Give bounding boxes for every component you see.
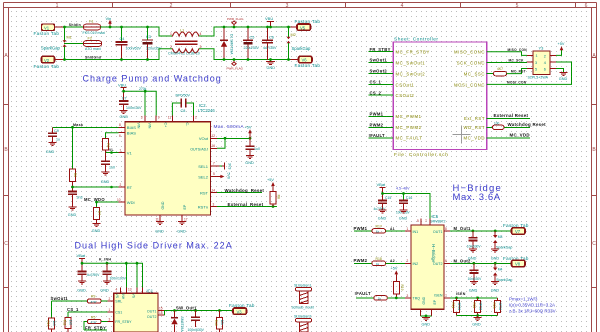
op-amp U IC1 driver [114,287,158,332]
svg-text:External_Reset: External_Reset [228,202,264,207]
connector Y3 ISP [527,46,556,80]
wire OUT1 bridge [444,226,512,232]
svg-text:+5V: +5V [558,42,565,46]
wire choke out top [200,27,225,36]
svg-text:MC_SwOut1: MC_SwOut1 [396,60,426,65]
svg-text:5: 5 [516,3,519,9]
SEC4 [354,182,556,326]
capacitor C4 [117,26,142,61]
ground bottom bus [267,58,276,70]
svg-text:4K7: 4K7 [497,67,503,71]
resistor R9 [88,295,114,304]
svg-text:VBU: VBU [118,83,126,88]
svg-text:MC_VDD: MC_VDD [510,132,530,137]
svg-text:V8: V8 [515,262,521,267]
svg-text:BIAS: BIAS [127,131,136,136]
resistor R6 [70,127,78,187]
svg-text:GND: GND [469,289,478,293]
svg-text:1u: 1u [56,138,60,142]
ground pin EP IC2 [177,215,187,234]
svg-text:100n/63V: 100n/63V [126,46,142,50]
svg-text:Max. 500mA: Max. 500mA [214,124,245,130]
svg-text:5: 5 [417,219,419,223]
capacitor C10 [101,153,115,173]
sheet pin MC_SSC [464,71,494,76]
pin OUTS/ADJ 16 [211,138,226,148]
svg-text:D1 SM6T39A: D1 SM6T39A [230,34,234,55]
text Pmax annotation [509,296,556,313]
svg-text:2: 2 [544,54,546,58]
svg-text:47R: 47R [91,320,97,324]
svg-text:5: 5 [213,172,215,176]
svg-text:BIAS: BIAS [127,125,136,130]
svg-text:Watchdog_Reset: Watchdog_Reset [225,188,265,193]
resistor R23 [492,298,502,316]
svg-text:4: 4 [544,61,546,65]
svg-text:OUT2: OUT2 [433,262,443,266]
svg-text:7: 7 [425,219,427,223]
capacitor C7 [119,97,142,111]
svg-text:C7: C7 [122,97,127,101]
sheet pin CS_2 [369,90,415,98]
spark gap M2 [287,26,311,61]
fuse F2 [84,36,102,51]
wire vertical V1-V2 [64,27,66,60]
label FAULT bridge [355,291,374,298]
ground C18 [469,282,478,293]
svg-text:PWR_FLAG: PWR_FLAG [227,66,244,70]
svg-text:OUT1: OUT1 [147,309,157,313]
svg-text:RST: RST [200,190,209,195]
svg-text:GND: GND [472,322,481,326]
svg-text:GND: GND [422,322,431,326]
svg-text:GND: GND [399,217,408,221]
wire OUT1 net driver [158,306,233,316]
svg-text:SW_Out1: SW_Out1 [176,306,197,311]
svg-text:PWR_FLAG: PWR_FLAG [227,17,244,21]
svg-text:LTC3246: LTC3246 [198,108,216,113]
resistor R22 [472,298,482,316]
sheet Controller [393,36,487,157]
resistor R18 [372,257,411,266]
svg-text:11: 11 [156,217,160,221]
capacitor C8 flying [168,94,197,122]
svg-text:4: 4 [401,3,404,9]
svg-text:C15: C15 [385,196,391,200]
capacitor C18 [468,263,483,281]
label PWM1 [354,226,373,231]
svg-text:SparkGap: SparkGap [292,46,312,51]
svg-text:MC_PWM1: MC_PWM1 [396,114,422,119]
svg-text:12: 12 [212,134,216,138]
svg-text:5V0: 5V0 [227,173,231,179]
svg-text:Max. 3.6A: Max. 3.6A [453,192,501,203]
pin V1 [106,148,126,154]
pin VOut 12 [211,134,252,140]
capacitor C17 [467,231,482,249]
svg-text:IC2: IC2 [199,103,206,108]
ground C10 [101,172,110,184]
svg-text:A2: A2 [390,259,395,263]
sheet pin MISO_CONC [454,48,527,56]
svg-text:+5V: +5V [391,267,398,271]
svg-text:CMS04-L2 L01B-L0: CMS04-L2 L01B-L0 [168,51,200,55]
svg-text:Vin: Vin [106,16,112,21]
power +5V ISP [556,42,565,55]
svg-text:EP: EP [183,204,187,209]
svg-text:100: 100 [494,122,500,126]
svg-text:C+: C+ [164,123,168,128]
capacitor C19 [188,311,205,332]
svg-text:SCK_CONC: SCK_CONC [457,60,485,65]
cursor crosshair [453,126,471,144]
svg-text:ISEN: ISEN [434,293,443,297]
svg-text:PWM2: PWM2 [354,258,368,263]
svg-text:V1: V1 [127,150,133,155]
capacitor C9 [48,127,60,142]
ground IC5 [421,309,432,326]
sheet pin PWM2 [369,122,422,130]
svg-text:Faston Tab: Faston Tab [295,63,321,68]
capacitor C16 [396,196,412,214]
svg-text:C6: C6 [269,36,274,40]
capacitor C5 polarized [244,26,260,61]
svg-text:1: 1 [170,32,172,36]
svg-text:Schraub_mount: Schraub_mount [292,306,315,310]
svg-text:Watchdog Reset: Watchdog Reset [508,122,547,127]
connector V6 Faston Tab [291,56,320,67]
svg-text:2: 2 [120,183,122,187]
svg-text:VOut: VOut [199,136,209,141]
svg-text:1k: 1k [376,230,380,234]
svg-text:6: 6 [585,3,588,9]
svg-text:GND: GND [378,217,387,221]
svg-text:External Reset: External Reset [494,113,529,118]
svg-text:16: 16 [212,144,216,148]
ground C9 [46,143,57,154]
svg-text:18: 18 [159,311,163,315]
svg-text:1: 1 [407,227,409,231]
capacitor C6 [263,26,277,60]
pin RST 14 [211,188,265,193]
svg-text:R8: R8 [277,195,281,199]
svg-text:+5V: +5V [267,178,274,182]
resistor R8 pullup [267,178,281,207]
svg-text:10n/630V: 10n/630V [467,244,482,248]
wire F2 stub [65,43,84,45]
svg-text:H−Bridge: H−Bridge [431,244,436,263]
svg-text:CS1: CS1 [115,311,122,315]
svg-text:NP0/50V: NP0/50V [176,94,191,98]
svg-text:IC1: IC1 [147,288,154,293]
svg-text:SM6T39A: SM6T39A [180,317,184,332]
svg-text:CS_1: CS_1 [67,307,79,312]
svg-text:1: 1 [536,54,538,58]
svg-text:100n/100V: 100n/100V [110,276,127,280]
svg-text:V2: V2 [44,58,50,63]
svg-text:C5: C5 [250,36,255,40]
svg-text:GND: GND [101,180,110,184]
svg-text:F1: F1 [89,20,93,24]
svg-text:I(o)=0.35V/0.11R=3.2A: I(o)=0.35V/0.11R=3.2A [509,302,555,307]
wire top bus right [224,26,297,28]
svg-text:0R33: 0R33 [457,303,461,311]
svg-text:ATO maxi: ATO maxi [85,47,101,51]
svg-text:R17: R17 [376,225,382,229]
svg-text:MC_RST: MC_RST [511,70,526,74]
power flag top [227,17,244,28]
svg-text:MC_SCK: MC_SCK [509,59,525,63]
ground shunt [472,318,482,327]
connector V7 Faston Tab [503,223,529,234]
wire into choke top [159,27,172,36]
wire MOSI loop [454,62,571,87]
diode D2 TVS [171,311,184,332]
svg-text:10: 10 [117,198,121,202]
svg-text:10k: 10k [220,320,224,326]
svg-text:CSOut1: CSOut1 [396,82,415,87]
connector V8 Faston Tab [503,256,529,267]
ground C16 [399,210,408,221]
svg-text:MISO_CONC: MISO_CONC [454,49,485,54]
svg-text:R23: R23 [492,303,496,309]
svg-text:MC_VDD: MC_VDD [464,136,485,141]
svg-text:3: 3 [213,202,215,206]
svg-text:VL: VL [109,148,114,152]
svg-text:OUTS/ADJ: OUTS/ADJ [190,147,208,151]
wire VBU to VIN pins [124,91,157,115]
ground C17 [468,249,477,260]
svg-text:3n3: 3n3 [77,196,83,200]
svg-text:M3: M3 [498,235,503,239]
svg-text:5: 5 [535,68,537,72]
ground pin GND IC2 [155,215,164,234]
svg-text:100n/630V: 100n/630V [188,328,205,332]
svg-text:GND: GND [559,77,568,81]
svg-text:R18: R18 [376,257,382,261]
svg-text:MC_PWM2: MC_PWM2 [396,125,422,130]
SEC1 [46,73,281,233]
svg-text:FR_STBY: FR_STBY [370,47,391,52]
svg-text:Dual High Side Driver Max. 22A: Dual High Side Driver Max. 22A [75,240,233,250]
pin WDI 10 [84,197,125,204]
svg-text:C16: C16 [406,196,412,200]
capacitor C12 [246,138,261,155]
svg-text:GND: GND [120,115,129,119]
capacitor C11 [68,186,83,207]
svg-text:VIN: VIN [137,123,141,129]
resistor R12 [84,315,114,330]
sheet pin Ext_RST [464,113,530,121]
svg-text:GND: GND [491,256,500,260]
svg-text:3: 3 [535,61,537,65]
power Vin [106,16,112,29]
svg-text:GND: GND [77,289,86,293]
svg-text:A1: A1 [390,227,395,231]
sheet pin FR_STBY [369,47,430,55]
svg-text:MC_FAULT: MC_FAULT [396,136,423,141]
sheet pin CS_1 [369,80,415,88]
svg-text:2: 2 [407,259,409,263]
svg-text:1k0: 1k0 [52,321,56,326]
svg-text:R11: R11 [62,320,66,326]
ground R7 [92,224,101,233]
svg-text:OUT1: OUT1 [433,230,443,234]
resistor R21 [451,298,461,316]
svg-text:V3: V3 [237,309,243,314]
ground C7 [120,111,129,120]
svg-text:0R33: 0R33 [498,303,502,311]
svg-text:2: 2 [170,45,172,49]
svg-text:CS_1: CS_1 [370,80,382,85]
svg-text:MISO_CON: MISO_CON [508,48,528,52]
connector V1 Faston Tab [34,24,65,36]
svg-text:17: 17 [184,217,188,221]
wire BIAS net [53,127,119,138]
svg-text:VIN: VIN [148,123,152,129]
resistor R10 [46,301,56,332]
svg-text:3: 3 [109,317,111,321]
svg-text:GND: GND [161,201,165,209]
svg-text:SwOut2: SwOut2 [370,69,388,74]
svg-text:3: 3 [141,115,143,119]
pin SEL2 5 [211,172,231,179]
sheet pin FAULT [369,133,423,141]
svg-text:FR_STBY: FR_STBY [115,320,132,324]
svg-text:IN2: IN2 [413,262,419,266]
svg-text:220u/35V: 220u/35V [244,46,260,50]
svg-text:4: 4 [200,32,202,36]
svg-text:R22: R22 [472,303,476,309]
wire to F1 [65,26,84,28]
ground C13 [77,281,86,293]
svg-text:VBU: VBU [265,16,273,21]
pin BIAS 8 [119,123,126,127]
svg-text:V5: V5 [300,25,306,30]
resistor R16 [214,311,224,332]
svg-text:GND: GND [177,230,186,234]
svg-text:GND: GND [491,289,500,293]
svg-text:z.B. 3x 1RJ=60Q R33V: z.B. 3x 1RJ=60Q R33V [509,308,556,313]
svg-text:M2: M2 [291,33,296,37]
svg-text:1k: 1k [376,262,380,266]
svg-text:S1PL3+2WA: S1PL3+2WA [528,76,549,80]
svg-text:GND: GND [46,150,55,154]
svg-text:!FAULT: !FAULT [369,133,386,138]
pin SEL1 7 [211,162,232,170]
wire bottom bus right [224,59,299,61]
ground C15 [378,210,387,221]
svg-text:Y3: Y3 [539,46,545,51]
svg-text:VS: VS [115,294,119,299]
screw St.Bolzen1 [292,283,315,309]
spark gap M3 [493,231,512,250]
connector V2 Faston Tab [34,56,65,69]
svg-text:2: 2 [195,115,197,119]
svg-text:C: C [592,241,596,247]
svg-text:3: 3 [407,294,409,298]
ground M4 [491,282,500,293]
svg-text:9: 9 [158,115,160,119]
svg-text:100n/16V: 100n/16V [126,106,142,110]
inductor L1 common-mode choke [168,29,202,56]
svg-text:SwOut1: SwOut1 [370,58,388,63]
svg-text:7: 7 [213,162,215,166]
svg-text:M_Out2: M_Out2 [454,258,472,263]
ground C12 [245,156,254,165]
svg-text:GND: GND [68,213,77,217]
svg-text:VBat: VBat [377,182,387,187]
svg-text:ISEN: ISEN [456,292,466,296]
resistor R17 [372,225,411,234]
op-amp U IC2 LTC3246 [125,103,215,215]
svg-text:6: 6 [119,134,121,138]
svg-text:Faston Tab: Faston Tab [34,64,60,69]
svg-text:Pmax=1.1W/3: Pmax=1.1W/3 [509,296,538,301]
pin stubs VIN [145,116,156,122]
screw St.Bolzen2 [294,314,312,332]
svg-text:MC_WDO: MC_WDO [84,197,105,202]
svg-text:RT: RT [127,185,133,190]
sheet pin PWM1 [369,111,422,119]
SEC2 [369,36,572,157]
svg-text:1: 1 [56,3,59,9]
svg-text:3: 3 [286,3,289,9]
svg-text:270k: 270k [139,87,147,91]
wire driver supply [82,263,143,287]
op-amp U IC5 DRV8872 [411,214,446,309]
svg-text:SwOut1: SwOut1 [51,296,69,301]
svg-text:C9: C9 [54,129,59,133]
svg-text:Ext_RST: Ext_RST [464,116,485,121]
svg-text:FR_STBY: FR_STBY [85,325,106,330]
fuse F1 [83,20,106,35]
wire OUT2 bridge [444,258,512,264]
svg-text:2: 2 [109,297,111,301]
svg-text:GND: GND [92,229,101,233]
svg-text:St.Bolzen2: St.Bolzen2 [294,314,311,318]
svg-text:10n/630V: 10n/630V [468,277,483,281]
connector V3 Faston Tab [229,303,255,314]
svg-text:GND: GND [267,66,276,70]
svg-text:R21: R21 [451,303,455,309]
resistor R24 [494,67,528,76]
svg-text:DRV8872: DRV8872 [430,219,446,223]
sheet pin WD_RST [464,122,547,130]
svg-text:VS: VS [132,294,136,299]
spark gap M1 [41,36,72,51]
label FR_STBY [84,325,107,330]
svg-text:FKS 019 maxi: FKS 019 maxi [83,31,106,35]
svg-text:Faston Tab: Faston Tab [34,31,60,36]
svg-text:ShldGnd: ShldGnd [85,55,101,59]
svg-text:1: 1 [120,148,122,152]
svg-text:R7: R7 [97,211,101,215]
svg-text:GND: GND [100,289,109,293]
svg-text:1: 1 [109,308,111,312]
diode D1 TVS [221,26,234,61]
svg-text:4.5−48V: 4.5−48V [396,186,410,190]
svg-text:OUT2: OUT2 [147,315,157,319]
svg-text:WD_RST: WD_RST [464,125,485,130]
svg-text:File: Controller.sch: File: Controller.sch [394,152,449,158]
svg-text:GND: GND [155,230,164,234]
capacitor C14 [103,263,127,281]
svg-text:+5V: +5V [245,126,252,130]
capacitor C13 [78,272,101,282]
svg-text:EP: EP [433,299,437,304]
resistor R2 [103,133,110,153]
